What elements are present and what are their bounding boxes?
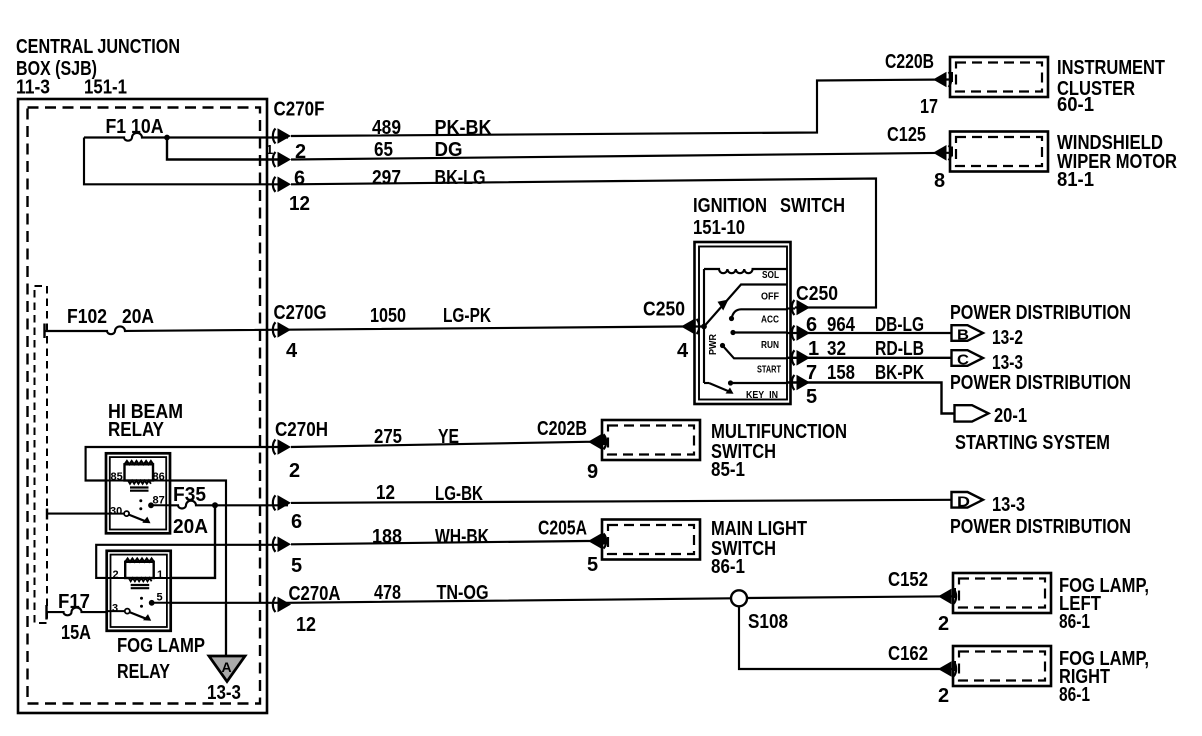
svg-text:POWER DISTRIBUTION: POWER DISTRIBUTION [950,516,1131,538]
connector C202B arrow [588,434,606,450]
pentagon connector C 13-3 [952,350,984,366]
svg-text:C270H: C270H [275,419,328,441]
svg-text:8: 8 [934,170,945,192]
C250 arrow ACC wire [792,300,810,316]
svg-text:MULTIFUNCTION: MULTIFUNCTION [711,421,847,443]
svg-text:5: 5 [157,592,163,604]
svg-text:POWER DISTRIBUTION: POWER DISTRIBUTION [950,372,1131,394]
svg-text:RD-LB: RD-LB [875,338,924,360]
svg-text:297: 297 [372,167,401,189]
svg-text:RELAY: RELAY [108,419,165,441]
fuse F1 10A [84,133,288,141]
svg-text:1: 1 [266,142,273,157]
svg-text:A: A [222,659,232,675]
svg-text:F1 10A: F1 10A [106,116,164,138]
svg-text:ACC: ACC [761,315,779,326]
svg-text:13-3: 13-3 [992,352,1023,374]
svg-text:2: 2 [289,460,300,482]
wire 65 DG to wiper motor [291,153,950,160]
svg-text:YE: YE [438,426,459,448]
SJB inner dashed sub-box 11-3 [35,286,48,623]
wire 158 BK-PK to starting system [787,383,955,414]
svg-text:BK-PK: BK-PK [875,362,924,384]
connector C270 arrow pin 5 (188 WH-BK) [273,537,291,553]
fog lamp relay K2 [107,551,171,631]
svg-text:86: 86 [153,471,165,483]
svg-text:151-1: 151-1 [84,77,127,99]
svg-text:489: 489 [372,117,401,139]
svg-text:3: 3 [112,603,118,615]
junction dot after F1 [164,135,170,141]
ACC contact [729,316,734,321]
svg-text:C: C [957,352,969,369]
svg-text:86-1: 86-1 [1059,611,1090,633]
connector C270F arrow pin 1 [273,128,291,144]
svg-text:86-1: 86-1 [711,556,745,578]
connector C162 arrow [938,661,956,677]
multifunction switch box [602,420,700,460]
svg-text:RELAY: RELAY [117,661,171,683]
wire 478 TN-OG from fog relay pin 5 to S108 [171,598,731,603]
wiper arm to OFF [704,285,787,327]
svg-text:20A: 20A [122,306,154,328]
svg-text:60-1: 60-1 [1057,94,1094,116]
svg-text:WH-BK: WH-BK [435,526,489,548]
svg-text:2: 2 [938,613,949,635]
C250 arrow pin 6 [792,325,810,341]
svg-text:6: 6 [291,511,302,533]
pentagon connector D 13-3 [952,492,984,508]
svg-text:1: 1 [157,569,163,581]
svg-text:C220B: C220B [885,51,934,73]
svg-text:85: 85 [111,471,123,483]
fuse F102 20A [43,324,45,339]
svg-text:13-3: 13-3 [992,494,1025,516]
svg-text:C125: C125 [887,124,926,146]
svg-text:478: 478 [374,582,401,604]
connector C125 arrow [933,145,951,161]
wire 12 LG-BK to power distribution D [291,500,952,503]
svg-text:STARTING SYSTEM: STARTING SYSTEM [955,432,1110,454]
ignition switch U1 outer box [695,242,791,404]
svg-text:32: 32 [827,338,846,360]
svg-text:4: 4 [286,340,298,362]
svg-text:158: 158 [827,362,855,384]
svg-text:6: 6 [294,168,305,190]
wire F35 junction down to fog relay coil [171,505,215,578]
wire relay pin 86 to ground A [170,481,226,657]
connector C220B arrow [933,72,951,88]
wire relay pin 30 feed [46,509,48,520]
svg-text:151-10: 151-10 [693,217,745,239]
svg-text:5: 5 [806,386,817,408]
svg-text:12: 12 [289,193,310,215]
wire 964 DB-LG to power distribution B [787,332,952,334]
svg-text:KEY_IN: KEY_IN [746,390,778,401]
wire S108 down to fog lamp right [739,606,953,669]
svg-text:C202B: C202B [537,418,587,440]
svg-text:86-1: 86-1 [1059,684,1090,706]
svg-text:START: START [757,365,781,376]
svg-text:17: 17 [920,96,938,118]
wire 32 RD-LB to power distribution C [787,357,952,359]
hi beam relay K1 [106,453,170,533]
svg-text:POWER DISTRIBUTION: POWER DISTRIBUTION [950,302,1131,324]
central junction box SJB outer box [18,99,267,713]
windshield wiper motor box [950,132,1048,172]
svg-text:SOL: SOL [762,270,779,281]
pivot dot [701,324,707,330]
svg-text:65: 65 [374,139,393,161]
central junction box SJB dashed box 151-1 [28,108,261,704]
svg-text:C270F: C270F [274,99,325,121]
svg-text:LG-BK: LG-BK [435,483,483,505]
svg-text:FOG LAMP: FOG LAMP [117,635,205,657]
RUN contact [730,330,735,335]
instrument cluster box [950,57,1048,97]
svg-text:C250: C250 [643,299,685,321]
svg-text:12: 12 [296,614,316,636]
wire 275 YE to multifunction switch [291,442,602,447]
PWR bus vertical [703,269,705,383]
svg-text:87: 87 [153,495,165,507]
svg-text:C205A: C205A [538,518,587,540]
svg-text:275: 275 [374,426,402,448]
svg-text:C152: C152 [888,569,928,591]
svg-text:INSTRUMENT: INSTRUMENT [1057,57,1165,79]
pentagon connector 20-1 [955,405,989,421]
svg-text:188: 188 [372,526,402,548]
svg-text:SWITCH: SWITCH [780,195,845,217]
svg-text:13-2: 13-2 [992,327,1023,349]
svg-text:F35: F35 [173,484,206,506]
svg-text:2: 2 [938,685,949,707]
svg-text:F17: F17 [58,591,90,613]
wire 297 BK-LG to ignition switch C250 [291,179,876,308]
svg-text:B: B [957,327,969,344]
svg-text:F102: F102 [67,306,107,328]
wire into ignition switch pivot [681,325,704,327]
KEY_IN switch [704,382,709,384]
svg-text:IGNITION: IGNITION [693,195,767,217]
svg-text:81-1: 81-1 [1057,169,1094,191]
svg-text:12: 12 [376,482,395,504]
svg-text:CENTRAL JUNCTION: CENTRAL JUNCTION [16,36,180,58]
splice S108 [731,590,747,606]
svg-text:TN-OG: TN-OG [437,582,489,604]
svg-text:OFF: OFF [761,292,779,303]
connector C270 arrow pin 6 (12 LG-BK) [273,495,291,511]
ignition coil SOL line [704,269,787,273]
wire F1 feed from C270F pin 6 [84,138,288,185]
svg-text:85-1: 85-1 [711,459,745,481]
svg-text:20-1: 20-1 [994,405,1027,427]
svg-text:MAIN LIGHT: MAIN LIGHT [711,518,807,540]
fog lamp left box [953,573,1051,613]
fog lamp right box [953,646,1051,686]
fuse F35 20A [170,501,288,509]
connector C270F arrow pin 6 [273,177,291,193]
START contact [720,343,725,348]
wire relay pin 85 to C270H [86,447,288,481]
wire S108 to fog lamp left [747,596,953,598]
svg-text:9: 9 [587,461,598,483]
svg-text:5: 5 [587,554,598,576]
svg-text:S108: S108 [748,611,788,633]
svg-text:13-3: 13-3 [207,682,241,704]
connector C270F arrow pin 2 [273,152,291,168]
svg-text:PK-BK: PK-BK [435,117,492,139]
junction dot after F35 [212,502,218,508]
wire F1 output to C270F pin 2 [167,138,288,160]
connector C205A arrow [588,533,606,549]
main light switch box [602,520,700,560]
svg-text:C162: C162 [888,643,928,665]
svg-text:7: 7 [806,362,817,384]
svg-text:4: 4 [677,340,689,362]
svg-text:5: 5 [291,555,302,577]
svg-text:BK-LG: BK-LG [435,167,486,189]
svg-text:2: 2 [113,569,119,581]
ground triangle A 13-3 [225,603,227,656]
svg-text:C270G: C270G [274,302,327,324]
svg-text:DB-LG: DB-LG [875,314,924,336]
connector C152 arrow [938,589,956,605]
C250 arrow pin 1 [792,350,810,366]
svg-text:PWR: PWR [708,333,719,355]
svg-text:964: 964 [827,314,856,336]
wire fog relay coil pin 2 to C270 pin 5 [96,545,288,578]
pentagon connector B 13-2 [952,325,984,341]
svg-text:D: D [957,494,970,511]
svg-text:RUN: RUN [761,340,779,351]
C250 arrow pin 7 [792,375,810,391]
svg-text:20A: 20A [173,516,208,538]
svg-text:1050: 1050 [370,305,406,327]
svg-text:11-3: 11-3 [16,77,50,99]
svg-text:LG-PK: LG-PK [443,305,491,327]
svg-text:15A: 15A [61,622,91,644]
svg-text:DG: DG [435,139,463,161]
fuse F17 15A [45,605,47,620]
svg-text:30: 30 [110,506,122,518]
wire 489 PK-BK to instrument cluster [291,80,950,137]
wire 188 WH-BK to main light switch [291,541,602,544]
svg-text:C250: C250 [796,283,838,305]
